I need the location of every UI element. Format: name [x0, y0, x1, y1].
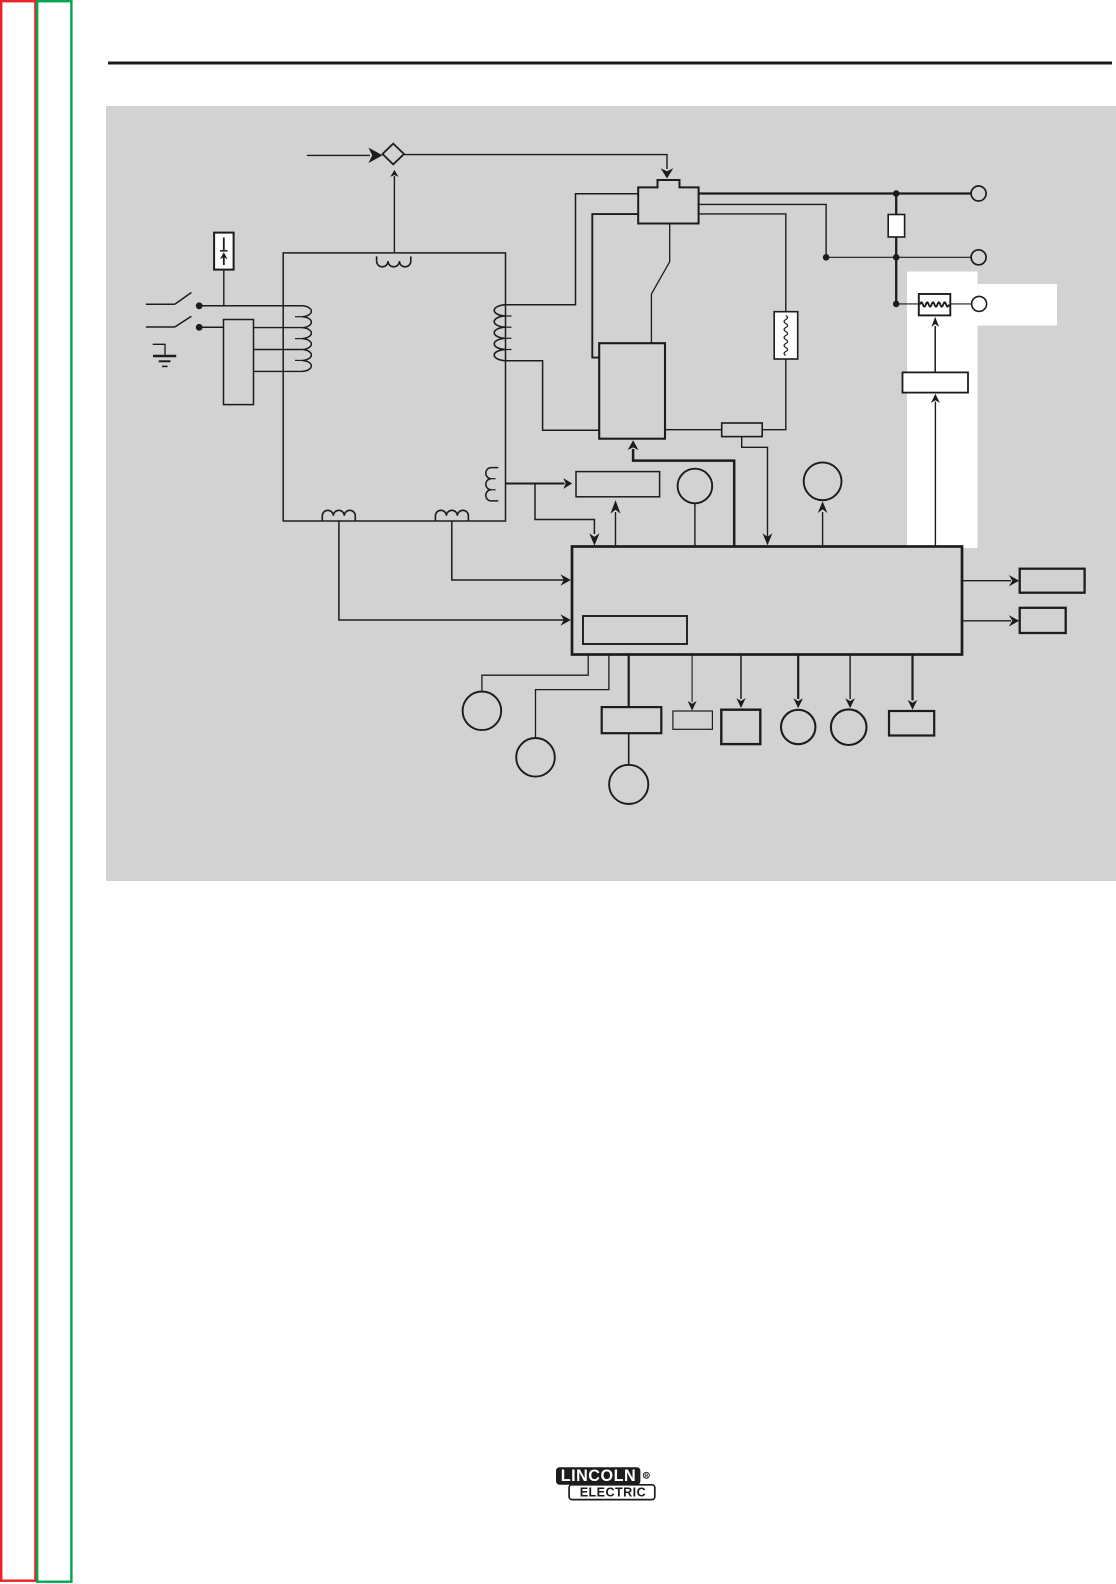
wire into diamond — [307, 154, 370, 156]
arrow board to sensor block — [934, 402, 936, 547]
arrow board to block A — [962, 580, 1011, 582]
gate drive wire — [633, 449, 734, 547]
inner block — [583, 616, 687, 644]
line switch pole 1 — [146, 303, 175, 305]
arrow board to firing block — [615, 512, 617, 547]
wire sense box to rectifier — [665, 429, 722, 431]
svg-text:LINCOLN: LINCOLN — [561, 1467, 636, 1485]
output terminal 2 — [971, 250, 986, 265]
resistor R1 leads — [895, 194, 897, 215]
svg-text:ELECTRIC: ELECTRIC — [580, 1486, 646, 1500]
T1 aux winding — [486, 468, 499, 501]
gray diagram panel — [106, 106, 1116, 881]
wire to solenoid block — [628, 654, 630, 707]
T1 bottom winding 2 — [435, 510, 468, 521]
control PC board — [572, 547, 962, 655]
secondary winding ticks — [506, 315, 512, 317]
wire to bottom circle 2 — [536, 654, 609, 738]
junction dot — [893, 301, 900, 308]
primary winding ticks — [295, 316, 302, 318]
ground — [153, 344, 165, 355]
wire sense box to control board — [742, 437, 768, 539]
wire R2 to sense box — [762, 359, 786, 430]
firing block — [576, 472, 660, 497]
wire shunt to terminal — [951, 303, 972, 305]
junction dot — [893, 254, 900, 261]
aux winding wire to firing block — [506, 483, 565, 485]
Lincoln Electric logo — [556, 1467, 655, 1500]
arrow to block E — [740, 655, 742, 700]
circuit breaker CB1 — [214, 233, 234, 270]
thermostat TP1 block — [638, 180, 698, 224]
arrow to block F — [911, 655, 913, 701]
thermostat bottom lead — [651, 223, 669, 343]
line switch pole 2 — [146, 326, 175, 328]
wire secondary top to thermostat — [506, 194, 639, 305]
wire switch2 to selector — [199, 326, 223, 328]
junction dot — [893, 190, 900, 197]
output terminal 3 — [972, 296, 987, 311]
T1 bottom winding 1 — [322, 510, 355, 521]
wire to bottom circle 1 — [482, 654, 588, 692]
wire secondary bottom to rectifier — [506, 361, 600, 431]
arrow board to block B — [962, 620, 1011, 622]
wire diamond to thermostat — [404, 155, 667, 169]
wire switch1 to primary — [199, 305, 302, 307]
junction dot — [823, 254, 830, 261]
wire thermostat to rectifier left — [592, 214, 638, 358]
aux branch to board — [535, 484, 594, 535]
arrow sensor block to shunt — [934, 326, 936, 372]
sensor block — [903, 372, 969, 392]
wire thermostat lower — [698, 214, 785, 312]
diamond flow node — [383, 144, 405, 165]
resistor R1 — [888, 215, 904, 238]
page border red frame (decorative) — [1, 1, 35, 1581]
shunt — [919, 294, 951, 315]
arrow to small block D — [691, 655, 693, 703]
voltage selector block — [224, 320, 254, 405]
arrow to circle B5 — [849, 655, 851, 700]
svg-text:R: R — [644, 1474, 648, 1480]
arrow up into diamond — [393, 176, 395, 253]
T1 secondary winding — [494, 305, 505, 361]
CB1 lead — [223, 270, 225, 306]
wire to shunt — [896, 303, 918, 305]
output terminal 1 — [971, 186, 986, 201]
potentiometer circle — [678, 469, 713, 504]
current sense box — [722, 423, 763, 437]
meter circle above board — [804, 462, 842, 500]
wire output positive — [698, 192, 970, 194]
main transformer T1 box — [283, 253, 505, 521]
T1 top winding — [377, 256, 411, 266]
wire thermostat mid — [698, 204, 826, 257]
arrow board to meter circle — [822, 512, 824, 547]
bus to shunt — [895, 257, 897, 304]
arrow to circle B4 — [797, 655, 799, 700]
T1 primary winding — [302, 306, 311, 372]
wire output negative — [826, 256, 971, 258]
selector taps — [254, 327, 302, 329]
wires transformer windings to board — [452, 521, 565, 580]
resistor R2 — [774, 312, 798, 359]
output rectifier block — [599, 343, 665, 439]
